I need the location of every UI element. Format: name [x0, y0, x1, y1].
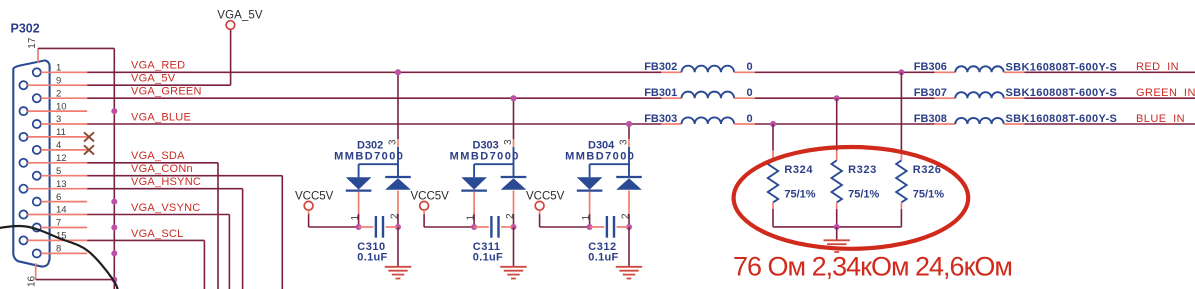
svg-text:0: 0: [747, 61, 753, 73]
svg-text:1: 1: [350, 215, 361, 221]
svg-text:6: 6: [56, 192, 61, 203]
svg-text:FB302: FB302: [644, 61, 677, 73]
svg-text:1: 1: [465, 215, 476, 221]
svg-text:P302: P302: [11, 22, 40, 36]
svg-text:3: 3: [387, 139, 398, 145]
svg-text:VGA_BLUE: VGA_BLUE: [131, 111, 191, 123]
svg-text:5: 5: [56, 166, 61, 177]
svg-text:MMBD7000: MMBD7000: [334, 151, 404, 163]
svg-text:17: 17: [27, 37, 38, 49]
svg-text:76 Ом 2,34кОм 24,6кОм: 76 Ом 2,34кОм 24,6кОм: [733, 251, 1012, 281]
svg-text:VGA_HSYNC: VGA_HSYNC: [131, 176, 201, 188]
svg-text:0.1uF: 0.1uF: [588, 252, 618, 264]
svg-text:2: 2: [389, 213, 400, 219]
svg-text:0: 0: [747, 113, 753, 125]
svg-text:75/1%: 75/1%: [848, 189, 879, 201]
svg-text:0.1uF: 0.1uF: [357, 252, 387, 264]
svg-text:75/1%: 75/1%: [784, 189, 815, 201]
svg-text:VGA_RED: VGA_RED: [131, 60, 185, 72]
svg-text:9: 9: [56, 75, 61, 86]
svg-text:VGA_SDA: VGA_SDA: [131, 150, 185, 162]
svg-text:SBK160808T-600Y-S: SBK160808T-600Y-S: [1006, 113, 1118, 125]
svg-text:2: 2: [620, 213, 631, 219]
svg-text:FB303: FB303: [644, 113, 677, 125]
svg-text:VGA_SCL: VGA_SCL: [131, 228, 184, 240]
svg-text:2: 2: [505, 213, 516, 219]
svg-text:FB308: FB308: [914, 113, 947, 125]
svg-text:12: 12: [56, 153, 67, 164]
svg-text:13: 13: [56, 179, 67, 190]
svg-text:FB307: FB307: [914, 87, 947, 99]
svg-text:R326: R326: [913, 164, 942, 176]
svg-text:GREEN_IN: GREEN_IN: [1136, 87, 1195, 99]
svg-text:VCC5V: VCC5V: [526, 191, 565, 203]
svg-text:VGA_5V: VGA_5V: [131, 73, 176, 85]
svg-text:4: 4: [56, 140, 61, 151]
svg-text:VCC5V: VCC5V: [295, 191, 334, 203]
svg-text:FB306: FB306: [914, 61, 947, 73]
svg-text:R324: R324: [784, 164, 813, 176]
svg-text:MMBD7000: MMBD7000: [450, 151, 520, 163]
svg-text:14: 14: [56, 205, 67, 216]
svg-text:SBK160808T-600Y-S: SBK160808T-600Y-S: [1006, 61, 1118, 73]
svg-text:1: 1: [581, 215, 592, 221]
svg-text:RED_IN: RED_IN: [1136, 61, 1179, 73]
svg-text:VGA_5V: VGA_5V: [217, 9, 263, 21]
svg-text:R323: R323: [848, 164, 877, 176]
svg-text:1: 1: [56, 63, 61, 74]
svg-text:3: 3: [503, 139, 514, 145]
svg-text:10: 10: [56, 101, 67, 112]
svg-text:VGA_VSYNC: VGA_VSYNC: [131, 202, 201, 214]
svg-text:2: 2: [56, 88, 61, 99]
svg-text:3: 3: [618, 139, 629, 145]
svg-text:3: 3: [56, 114, 61, 125]
svg-text:7: 7: [56, 218, 61, 229]
svg-text:75/1%: 75/1%: [913, 189, 944, 201]
svg-text:VGA_GREEN: VGA_GREEN: [131, 86, 202, 98]
svg-text:8: 8: [56, 244, 61, 255]
svg-text:0.1uF: 0.1uF: [473, 252, 503, 264]
svg-text:11: 11: [56, 127, 66, 138]
svg-text:VGA_CONn: VGA_CONn: [131, 163, 193, 175]
svg-text:MMBD7000: MMBD7000: [565, 151, 635, 163]
svg-text:VCC5V: VCC5V: [411, 191, 450, 203]
svg-text:0: 0: [747, 87, 753, 99]
svg-text:FB301: FB301: [644, 87, 677, 99]
svg-text:SBK160808T-600Y-S: SBK160808T-600Y-S: [1006, 87, 1118, 99]
svg-text:BLUE_IN: BLUE_IN: [1136, 113, 1185, 125]
